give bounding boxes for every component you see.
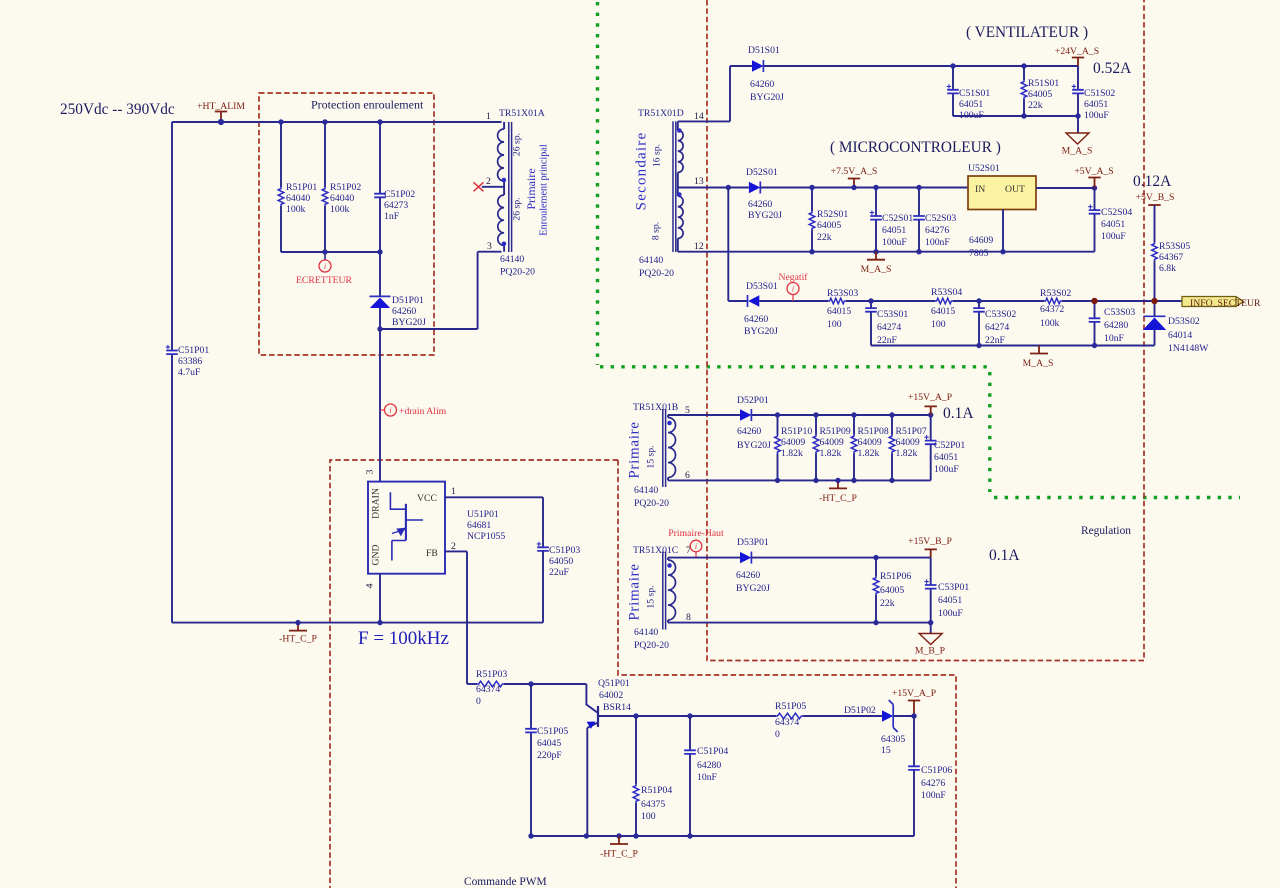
svg-text:64260: 64260 [736,570,760,581]
capacitor C53S03 [1094,301,1096,346]
svg-text:D52S01: D52S01 [746,167,778,178]
svg-text:0.52A: 0.52A [1093,60,1132,77]
svg-text:R51S01: R51S01 [1028,78,1059,89]
svg-text:64609: 64609 [969,235,993,246]
svg-text:8 sp.: 8 sp. [651,222,662,240]
svg-text:PQ20-20: PQ20-20 [634,640,669,651]
svg-text:64015: 64015 [827,306,851,317]
node ECRETTEUR [324,252,326,260]
node Negatif [787,283,799,295]
svg-text:64005: 64005 [817,220,841,231]
resistor R51P04 [635,716,637,836]
resistor R51P09 [815,415,817,480]
svg-text:64005: 64005 [1028,89,1052,100]
transformer TR51X01A winding 2 [498,195,504,245]
svg-text:Primaire-Haut: Primaire-Haut [668,528,724,539]
power +7.5V_A_S [848,179,860,188]
svg-text:1.82k: 1.82k [820,448,842,459]
svg-text:100uF: 100uF [934,464,959,475]
power +24V_A_S [1072,58,1084,67]
svg-text:100: 100 [931,319,946,330]
svg-text:4.7uF: 4.7uF [178,367,201,378]
svg-text:BYG20J: BYG20J [736,583,770,594]
capacitor C52S03 [918,188,920,252]
svg-text:100k: 100k [1040,318,1060,329]
svg-text:64274: 64274 [985,322,1009,333]
svg-text:C51P06: C51P06 [921,765,952,776]
svg-text:D51P02: D51P02 [844,705,876,716]
transformer TR51X01C winding [668,560,676,620]
svg-text:64040: 64040 [286,193,310,204]
svg-text:1: 1 [486,111,491,122]
regulator U52S01 7805 [968,176,1036,210]
svg-text:64051: 64051 [959,99,983,110]
svg-text:i: i [792,284,794,293]
svg-text:64260: 64260 [750,79,774,90]
svg-text:R53S02: R53S02 [1040,288,1071,299]
svg-text:BSR14: BSR14 [603,702,631,713]
svg-text:64009: 64009 [896,437,920,448]
polarity dot TR51X01C [667,563,672,568]
svg-text:100uF: 100uF [938,608,963,619]
transformer TR51X01A core [509,122,512,252]
power +HT_ALIM [215,112,227,123]
svg-text:64260: 64260 [748,199,772,210]
svg-text:64305: 64305 [881,734,905,745]
svg-text:+7.5V_A_S: +7.5V_A_S [831,166,878,177]
svg-text:64276: 64276 [925,225,949,236]
svg-text:DRAIN: DRAIN [371,488,382,519]
capacitor C51P03 [537,547,549,551]
ground -HT_C_P PWM [610,836,628,844]
svg-text:250Vdc -- 390Vdc: 250Vdc -- 390Vdc [60,101,175,118]
svg-text:R53S05: R53S05 [1159,241,1190,252]
resistor R51P05 [776,713,803,719]
svg-text:64260: 64260 [392,306,416,317]
svg-text:6: 6 [685,470,690,481]
svg-text:GND: GND [371,545,382,566]
svg-text:64367: 64367 [1159,252,1183,263]
diode D53S01 [748,295,759,306]
svg-text:i: i [389,406,391,415]
svg-text:+5V_B_S: +5V_B_S [1136,192,1175,203]
svg-text:-HT_C_P: -HT_C_P [600,849,638,860]
svg-text:100uF: 100uF [1084,110,1109,121]
wire node to transistor [531,683,586,685]
transformer TR51X01A winding 1 [503,122,505,129]
svg-text:BYG20J: BYG20J [392,317,426,328]
svg-text:BYG20J: BYG20J [744,326,778,337]
svg-text:+15V_A_P: +15V_A_P [908,392,952,403]
svg-text:Q51P01: Q51P01 [598,678,630,689]
svg-text:R51P09: R51P09 [820,426,851,437]
transistor Q51P01 [586,684,598,713]
svg-text:1N4148W: 1N4148W [1168,343,1209,354]
svg-text:D51P01: D51P01 [392,295,424,306]
svg-text:Regulation: Regulation [1081,525,1131,537]
svg-text:100: 100 [827,319,842,330]
svg-text:U52S01: U52S01 [968,163,1000,174]
svg-text:64140: 64140 [500,254,524,265]
wire drain vertical [379,329,381,482]
svg-text:PQ20-20: PQ20-20 [639,268,674,279]
svg-text:C51P03: C51P03 [549,545,580,556]
svg-text:3: 3 [487,241,492,252]
svg-text:16 sp.: 16 sp. [652,144,663,167]
svg-text:64045: 64045 [537,738,561,749]
svg-text:3: 3 [365,469,376,474]
svg-text:64015: 64015 [931,306,955,317]
svg-text:64009: 64009 [858,437,882,448]
resistor R51S01 [1023,66,1025,116]
transformer TR51X01D winding 1 [677,121,679,130]
svg-text:15 sp.: 15 sp. [646,445,657,468]
power +5V_B_S and resistor R53S05 [1148,204,1160,206]
diode D51P01 [379,252,381,329]
svg-text:64260: 64260 [744,314,768,325]
ground M_A_S negatif [1030,346,1048,354]
svg-text:D52P01: D52P01 [737,395,769,406]
capacitor C51P02 [379,122,381,252]
diode D51S01 [752,60,763,71]
svg-text:14: 14 [694,111,704,122]
svg-text:64276: 64276 [921,778,945,789]
svg-text:22k: 22k [817,232,832,243]
svg-text:64140: 64140 [634,627,658,638]
svg-text:0.1A: 0.1A [943,405,974,422]
svg-text:R51P07: R51P07 [896,426,927,437]
svg-text:64009: 64009 [820,437,844,448]
svg-text:+15V_A_P: +15V_A_P [892,688,936,699]
svg-text:1nF: 1nF [384,211,400,222]
capacitor C52P01 [930,415,932,480]
wire diode to transformer pin3 [380,252,502,329]
green dotted partition border vertical left [596,2,599,365]
svg-text:64051: 64051 [1101,219,1125,230]
svg-text:TR51X01A: TR51X01A [499,108,545,119]
svg-text:100uF: 100uF [1101,231,1126,242]
resistor R51P03 [467,683,477,685]
svg-text:ECRETTEUR: ECRETTEUR [296,275,353,286]
svg-text:64051: 64051 [934,452,958,463]
transformer TR51X01D winding 2 [678,196,683,238]
wire VCC pin 1 [445,497,543,547]
wire negatif bottom rail [871,345,1155,347]
capacitor C52S01 [875,188,877,252]
wire pin 12 rail [678,251,1095,253]
svg-text:64374: 64374 [775,717,799,728]
node Primaire-Haut [690,540,702,552]
transformer TR51X01A pin 2 stub [482,186,504,188]
svg-text:12: 12 [694,241,704,252]
svg-text:0.12A: 0.12A [1133,173,1172,190]
svg-text:C52S03: C52S03 [925,213,956,224]
svg-text:1.82k: 1.82k [858,448,880,459]
diode D53S02 [1154,301,1156,346]
capacitor C51P05 [530,684,532,836]
svg-text:D53P01: D53P01 [737,537,769,548]
svg-text:100k: 100k [286,204,306,215]
diode D52P01 [740,409,751,420]
svg-text:M_A_S: M_A_S [1062,146,1093,157]
svg-text:FB: FB [426,548,438,559]
svg-text:64051: 64051 [882,225,906,236]
svg-text:22k: 22k [880,598,895,609]
svg-text:64009: 64009 [781,437,805,448]
svg-text:R51P04: R51P04 [641,785,672,796]
svg-text:0.1A: 0.1A [989,547,1020,564]
svg-text:64274: 64274 [877,322,901,333]
svg-text:64014: 64014 [1168,330,1192,341]
svg-text:Secondaire: Secondaire [634,132,650,211]
svg-text:R51P08: R51P08 [858,426,889,437]
svg-text:R51P06: R51P06 [880,571,911,582]
svg-text:VCC: VCC [417,493,437,504]
power +5V_A_S [1088,178,1100,189]
svg-text:Commande PWM: Commande PWM [464,876,547,888]
svg-text:+drain Alim: +drain Alim [399,406,447,417]
svg-text:i: i [324,262,326,271]
diode D53P01 [740,552,751,563]
wire pin 7 rail [668,557,740,559]
wire pin 6 rail [668,479,931,481]
svg-text:64051: 64051 [938,595,962,606]
svg-text:M_B_P: M_B_P [915,646,945,657]
svg-text:1.82k: 1.82k [896,448,918,459]
svg-text:R53S04: R53S04 [931,287,962,298]
svg-text:100k: 100k [330,204,350,215]
green dotted partition border horizontal lower [994,496,1240,499]
wire pin 5 rail [668,414,740,416]
svg-text:64051: 64051 [1084,99,1108,110]
power +15V_B_P [925,549,937,557]
transformer TR51X01D core [673,121,676,252]
wire ventilateur bottom rail [953,115,1078,117]
capacitor C51P06 [913,716,915,836]
diode D52S01 [749,182,760,193]
svg-text:Primaire: Primaire [524,168,538,209]
svg-text:C53P01: C53P01 [938,582,969,593]
dashed box Commande PWM [330,460,956,888]
no-connect X on pin 2 [474,182,484,191]
resistor R51P08 [853,415,855,480]
wire pin13 node down to negatif rail [728,188,747,302]
mosfet symbol inside U51P01 [390,492,406,509]
transformer TR51X01B core [663,409,666,487]
svg-text:NCP1055: NCP1055 [467,531,505,542]
svg-text:+5V_A_S: +5V_A_S [1074,166,1113,177]
wire pin 14 to diode [678,66,752,121]
resistor R53S02 [1044,298,1062,304]
svg-text:i: i [695,542,697,551]
svg-text:22k: 22k [1028,100,1043,111]
svg-text:C53S02: C53S02 [985,309,1016,320]
polarity dot TR51X01A upper [502,178,507,183]
capacitor C51P04 [689,716,691,836]
svg-text:M_A_S: M_A_S [861,264,892,275]
svg-text:100uF: 100uF [882,237,907,248]
capacitor C51S02 [1077,66,1079,116]
capacitor C51P01 [166,351,178,355]
resistor R53S04 [935,298,953,304]
svg-text:1.82k: 1.82k [781,448,803,459]
svg-text:C51P01: C51P01 [178,345,209,356]
svg-text:BYG20J: BYG20J [737,440,771,451]
wire left vertical [171,122,173,623]
svg-text:R51P05: R51P05 [775,701,806,712]
svg-text:22nF: 22nF [985,335,1006,346]
svg-text:15: 15 [881,745,891,756]
svg-text:Primaire: Primaire [627,563,643,620]
svg-text:100: 100 [641,811,656,822]
svg-text:64681: 64681 [467,520,491,531]
svg-text:TR51X01C: TR51X01C [633,545,678,556]
svg-text:Primaire: Primaire [627,421,643,478]
capacitor C52S04 [1094,188,1096,252]
svg-text:C53S01: C53S01 [877,309,908,320]
svg-text:7805: 7805 [969,248,989,259]
svg-text:Protection enroulement: Protection enroulement [311,98,424,112]
svg-text:2: 2 [451,541,456,552]
svg-text:PQ20-20: PQ20-20 [500,267,535,278]
svg-text:64005: 64005 [880,585,904,596]
green dotted partition border vertical middle [988,372,991,492]
svg-text:F = 100kHz: F = 100kHz [358,628,449,649]
wire GND pin 4 [379,574,381,623]
transformer TR51X01B winding [668,418,676,478]
svg-text:1: 1 [451,486,456,497]
svg-text:R51P02: R51P02 [330,182,361,193]
polarity dot TR51X01A lower [502,242,507,247]
svg-text:R51P03: R51P03 [476,669,507,680]
svg-text:64374: 64374 [476,684,500,695]
svg-text:15 sp.: 15 sp. [646,585,657,608]
svg-text:C51P04: C51P04 [697,746,728,757]
power +15V_A_P lower [908,701,920,717]
wire bottom rail left [172,622,543,624]
svg-text:64002: 64002 [599,690,623,701]
svg-text:64372: 64372 [1040,304,1064,315]
resistor R51P01 [280,122,282,252]
svg-text:C51S02: C51S02 [1084,88,1115,99]
ground -HT_C_P left [289,623,307,631]
resistor R51P06 [875,558,877,623]
svg-text:OUT: OUT [1005,184,1025,195]
svg-text:100nF: 100nF [921,790,946,801]
dashed box Regulation [707,0,1144,661]
polarity dot TR51X01D upper [677,128,682,133]
svg-text:22uF: 22uF [549,567,570,578]
svg-text:U51P01: U51P01 [467,509,499,520]
capacitor C53S01 [870,301,872,346]
svg-text:D51S01: D51S01 [748,45,780,56]
wire HT rail top [172,121,502,123]
svg-text:64050: 64050 [549,556,573,567]
ground M_B_P [930,623,932,634]
power +15V_A_P upper [925,406,937,415]
transformer TR51X01C core [663,552,666,630]
polarity dot TR51X01B [667,421,672,426]
polarity dot TR51X01D lower [677,192,682,197]
svg-text:IN: IN [975,184,985,195]
wire PWM bottom rail [531,835,914,837]
svg-text:64140: 64140 [634,485,658,496]
svg-text:26 sp.: 26 sp. [512,133,523,156]
dashed box Protection enroulement [259,93,434,355]
svg-text:64140: 64140 [639,255,663,266]
svg-text:PQ20-20: PQ20-20 [634,498,669,509]
svg-text:R51P10: R51P10 [781,426,812,437]
wire snubber bottom rail [281,251,380,253]
svg-text:C52P01: C52P01 [934,440,965,451]
svg-text:0: 0 [476,696,481,707]
wire OUT to +5V [1036,187,1095,189]
svg-text:+HT_ALIM: +HT_ALIM [197,101,245,112]
svg-text:100nF: 100nF [925,237,950,248]
svg-text:6.8k: 6.8k [1159,263,1176,274]
svg-text:+24V_A_S: +24V_A_S [1055,46,1099,57]
svg-text:C52S04: C52S04 [1101,207,1132,218]
svg-text:4: 4 [365,583,376,588]
svg-text:64375: 64375 [641,799,665,810]
svg-text:M_A_S: M_A_S [1023,358,1054,369]
svg-text:10nF: 10nF [697,772,718,783]
wire pin 13 rail [678,187,749,189]
svg-text:10nF: 10nF [1104,333,1125,344]
svg-text:C51P05: C51P05 [537,726,568,737]
svg-text:C51P02: C51P02 [384,189,415,200]
svg-text:22nF: 22nF [877,335,898,346]
svg-text:Negatif: Negatif [778,272,808,283]
svg-text:BYG20J: BYG20J [748,210,782,221]
svg-text:8: 8 [686,612,691,623]
svg-text:C51S01: C51S01 [959,88,990,99]
svg-text:( VENTILATEUR ): ( VENTILATEUR ) [966,24,1088,41]
ground M_A_S microcontroleur [867,252,885,260]
svg-text:-HT_C_P: -HT_C_P [819,493,857,504]
ground M_A_S ventilateur [1077,116,1079,133]
svg-text:R52S01: R52S01 [817,209,848,220]
svg-text:26 sp.: 26 sp. [512,197,523,220]
svg-text:D53S01: D53S01 [746,281,778,292]
svg-text:TR51X01D: TR51X01D [638,108,684,119]
wire pin 8 rail [668,622,931,624]
resistor R51P02 [324,122,326,252]
node +drain Alim [380,409,385,411]
svg-text:64280: 64280 [697,760,721,771]
svg-text:13: 13 [694,176,704,187]
op-amp U51P01 NCP1055 box [368,482,445,574]
wire FB pin 2 [445,551,467,684]
svg-text:64280: 64280 [1104,320,1128,331]
svg-text:INFO_SECTEUR: INFO_SECTEUR [1190,298,1261,309]
svg-text:Enroulement principal: Enroulement principal [539,144,550,236]
svg-text:BYG20J: BYG20J [750,92,784,103]
wire U52S01 ground pin [1002,210,1004,252]
wire collector rail [598,715,776,717]
svg-text:C53S03: C53S03 [1104,307,1135,318]
svg-text:( MICROCONTROLEUR ): ( MICROCONTROLEUR ) [830,139,1001,156]
capacitor C53S02 [978,301,980,346]
capacitor C51S01 [952,66,954,116]
capacitor C53P01 [930,558,932,623]
svg-text:D53S02: D53S02 [1168,316,1200,327]
resistor R51P10 [777,415,779,480]
svg-text:0: 0 [775,729,780,740]
net label INFO_SECTEUR [1182,297,1244,307]
resistor R52S01 [811,188,813,252]
svg-text:2: 2 [486,176,491,187]
